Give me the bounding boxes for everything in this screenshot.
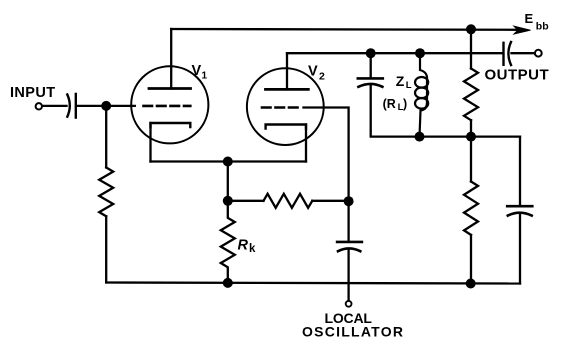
wire R1 to bottom rail (105, 216, 107, 282)
arrow to Ebb (514, 26, 531, 34)
wire R4 to bottom rail (470, 235, 472, 284)
node Rk bottom junction (223, 278, 233, 288)
tube V1 envelope (131, 66, 208, 143)
wire C2 top lead (370, 53, 372, 77)
node L1 bottom junction (415, 132, 425, 142)
tube V2 envelope (247, 68, 324, 145)
svg-text:bb: bb (536, 21, 549, 33)
node cathode bus junction (223, 157, 233, 167)
wire input terminal to C1 (43, 105, 67, 107)
svg-text:): ) (403, 97, 407, 111)
tube V1 grid (dashed) (144, 105, 191, 108)
node INPUT terminal (36, 103, 42, 109)
node C2 top junction (366, 48, 376, 58)
node OUTPUT terminal (535, 50, 542, 57)
node local oscillator junction (344, 196, 354, 206)
svg-text:(R: (R (383, 97, 396, 111)
capacitor C1 (input coupling) (67, 94, 76, 118)
wire C3 to local oscillator terminal (347, 250, 349, 300)
svg-text:2: 2 (319, 71, 325, 83)
inductor L1 (ZL) (415, 53, 428, 136)
node LOCAL OSCILLATOR terminal (346, 301, 352, 307)
svg-text:Z: Z (396, 73, 405, 89)
wire right cap branch bottom (519, 214, 521, 284)
tube V1 cathode (151, 123, 191, 127)
wire Rk node to R2 (228, 200, 264, 202)
wire C1 to input node (77, 105, 106, 107)
wire R2 to local osc node (312, 200, 348, 202)
capacitor C5 (output coupling) (504, 42, 512, 65)
wire top rail (Ebb) (171, 28, 517, 31)
resistor R2 (horizontal, to local oscillator) (264, 194, 313, 208)
wire input node to V1 grid (106, 105, 135, 107)
svg-text:INPUT: INPUT (10, 85, 56, 101)
resistor R3 (upper right) (464, 69, 478, 121)
svg-text:E: E (525, 11, 534, 26)
tube V2 plate (266, 88, 309, 91)
wire top junction to R3 (470, 29, 472, 68)
wire cathode bus (151, 160, 307, 162)
wire mid-right bus (420, 135, 521, 137)
tube V1 plate (149, 87, 191, 90)
wire V2 plate lead (286, 53, 288, 89)
node R4 bottom junction (466, 279, 476, 289)
resistor Rk (221, 201, 235, 283)
wire C2 bottom lead (371, 85, 420, 136)
node L1 top junction (415, 48, 425, 58)
node input junction (101, 101, 111, 111)
wire V1 plate lead (170, 29, 172, 89)
wire C5 to output terminal (512, 52, 535, 54)
wire mid bus to R4 (470, 137, 472, 182)
tube V2 cathode (266, 125, 306, 129)
resistor R4 (lower right) (464, 182, 478, 235)
wire local osc node to C3 (347, 201, 349, 241)
wire bottom rail (106, 283, 520, 284)
wire right cap branch top (519, 137, 521, 206)
node top rail junction (466, 24, 476, 34)
svg-text:R: R (238, 238, 249, 254)
wire R3 to mid bus (470, 120, 472, 136)
wire input node down to R1 (105, 106, 107, 168)
svg-text:V: V (192, 63, 202, 79)
capacitor C4 (bottom right) (507, 206, 532, 215)
capacitor C3 (local oscillator coupling) (337, 242, 362, 251)
svg-text:1: 1 (202, 71, 208, 82)
node R3 bottom junction (466, 132, 476, 142)
svg-text:OSCILLATOR: OSCILLATOR (302, 324, 404, 340)
wire V1 cathode to bus (149, 123, 151, 162)
svg-text:L: L (406, 80, 412, 91)
svg-text:k: k (249, 243, 256, 255)
resistor R1 (grid resistor) (99, 168, 113, 217)
wire V2 grid to local osc line (304, 108, 349, 202)
node Rk top junction (223, 196, 233, 206)
wire second rail (V2 plate to output) (287, 52, 503, 54)
svg-text:V: V (308, 64, 318, 80)
wire V2 cathode to bus (305, 125, 307, 162)
wire bus junction down to Rk node (227, 162, 229, 201)
tube V2 grid (dashed) (262, 106, 299, 109)
capacitor C2 (358, 78, 383, 86)
svg-text:OUTPUT: OUTPUT (485, 67, 550, 84)
